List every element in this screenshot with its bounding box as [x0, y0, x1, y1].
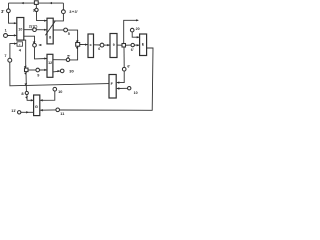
wire box8 to 3+3' [53, 14, 63, 21]
wire box4 to node7 [10, 44, 17, 59]
svg-text:5: 5 [68, 32, 70, 36]
wire square down to node5' to box12 [70, 46, 78, 60]
arrow top bus left 1 [21, 2, 24, 4]
node 8 [25, 91, 28, 94]
node 45 [33, 43, 37, 47]
wire box12 to node30 [53, 70, 60, 73]
arrow into box4 [14, 43, 17, 45]
node 6 [100, 43, 104, 47]
box G [34, 95, 40, 116]
svg-text:6': 6' [131, 48, 134, 52]
node 3+3' [62, 10, 66, 14]
arrow square to boxC [85, 44, 88, 46]
arrow into boxE mid [137, 44, 140, 46]
svg-text:3+3': 3+3' [69, 9, 78, 14]
node 7 [8, 58, 12, 62]
svg-text:30: 30 [69, 69, 74, 74]
svg-text:6: 6 [98, 47, 100, 51]
arrow down above node45 [33, 41, 36, 44]
arrow into box9 [107, 44, 110, 46]
wire boxE output right and bottom bus to node11 to boxG [60, 48, 153, 110]
wire node20 to boxE [132, 32, 139, 37]
svg-text:2(3'): 2(3') [29, 25, 38, 29]
box F [109, 75, 116, 99]
wire square to boxC [80, 44, 88, 46]
wire box10 to node2(3') to box8 [24, 29, 33, 31]
wire node11' to boxG [21, 111, 34, 113]
svg-text:10: 10 [18, 28, 22, 32]
node 20 [130, 28, 134, 32]
box 4 small [17, 42, 23, 46]
arrow into box10 lower [14, 34, 17, 36]
svg-text:9: 9 [113, 43, 115, 47]
box 12 [47, 54, 53, 77]
wire 3' to box10 [9, 13, 17, 24]
node 11 [56, 108, 60, 112]
box C [88, 34, 94, 58]
svg-text:20: 20 [136, 27, 140, 31]
wire node8 to boxG [27, 95, 34, 101]
wire node10L down to boxG [40, 91, 55, 100]
wire stub arrow into node45 [39, 44, 41, 46]
wire square to node3 [35, 5, 37, 9]
wire node45 to box12 [35, 47, 47, 59]
node 6' lower [122, 67, 126, 71]
arrow down below nodeMid [24, 72, 27, 75]
node 11' [18, 111, 21, 114]
arrow into box12 lower [44, 69, 47, 71]
node A square [122, 44, 126, 48]
arrow into boxG right lower [40, 109, 43, 111]
node 10 left [53, 87, 57, 91]
box8 variable diagonal [45, 21, 55, 36]
wire node3 to box8 [37, 12, 47, 21]
wire nodeMid down to node8 [25, 72, 27, 92]
box E [140, 34, 147, 56]
arrow down above bus junction [24, 83, 27, 86]
svg-text:11: 11 [60, 112, 64, 116]
arrow stub into node45 [39, 44, 42, 46]
node square top [34, 1, 38, 5]
node 3 [35, 8, 38, 11]
box 9 [110, 34, 117, 58]
wire top bus [9, 2, 64, 4]
arrow box12 to node30 [58, 70, 61, 72]
wire 3+3' drop [62, 3, 64, 10]
svg-text:9: 9 [37, 74, 39, 78]
wire node7 down to long bus [10, 62, 109, 86]
node 5 [64, 28, 68, 32]
node square mid [76, 43, 80, 47]
node 30 [60, 69, 64, 73]
arrow into box10 upper [14, 22, 17, 24]
node 2(3') [33, 28, 37, 32]
arrow down below node8 [25, 96, 28, 99]
svg-text:6': 6' [127, 64, 130, 68]
arrow into boxG right upper [40, 99, 43, 101]
wire boxC to node6 to box9 [94, 44, 101, 46]
svg-text:7: 7 [4, 54, 6, 58]
svg-text:G: G [35, 104, 38, 109]
wire 3' drop [8, 3, 10, 9]
arrow top bus left 2 [49, 2, 52, 4]
arrow into box8 lower [44, 29, 47, 31]
node 5' [66, 58, 70, 62]
svg-text:1: 1 [5, 29, 7, 33]
node mid junction square [25, 68, 29, 72]
arrow into boxF right upper [117, 81, 120, 83]
node 9 [36, 68, 40, 72]
node 1 [4, 34, 8, 38]
arrow below square [76, 47, 79, 50]
box 10 [17, 18, 24, 41]
wire node1 to box10 [8, 34, 17, 36]
wire box9 to nodeA to node6' to boxE [117, 44, 122, 46]
arrow on node11' wire [26, 111, 29, 113]
svg-text:3': 3' [1, 9, 4, 14]
svg-text:10: 10 [134, 91, 138, 95]
wire node10R to boxF [117, 87, 128, 89]
wire nodeMid to node9 to box12 [28, 69, 36, 71]
arrow output top right [136, 19, 139, 21]
wire box8 to node5 to square [53, 29, 63, 31]
arrow into boxE upper [137, 36, 140, 38]
arrow into box8 upper [44, 20, 47, 22]
node 3' [7, 9, 11, 13]
arrow into boxF right lower [117, 87, 120, 89]
wire node6'b to boxF [117, 71, 124, 83]
svg-text:8: 8 [21, 91, 24, 96]
arrow into boxG left upper [31, 99, 34, 101]
node 6' right [131, 43, 134, 46]
svg-text:12: 12 [48, 61, 52, 65]
arrow down into square [76, 40, 79, 43]
arrow into box12 upper [44, 57, 47, 59]
box 8 [47, 18, 53, 44]
wire nodeA down to node6'b [123, 47, 125, 67]
wire box10 to node45 [24, 36, 35, 43]
svg-text:5': 5' [67, 54, 70, 58]
wire box10 corner down to nodeMid [24, 40, 26, 68]
svg-text:11': 11' [11, 109, 16, 113]
svg-text:4: 4 [19, 48, 22, 53]
wire nodeA up and out arrow [124, 20, 139, 43]
node 10 right [128, 87, 131, 90]
svg-text:3: 3 [33, 8, 35, 12]
svg-text:10: 10 [58, 90, 62, 94]
arrow down above nodeMid [24, 66, 27, 69]
